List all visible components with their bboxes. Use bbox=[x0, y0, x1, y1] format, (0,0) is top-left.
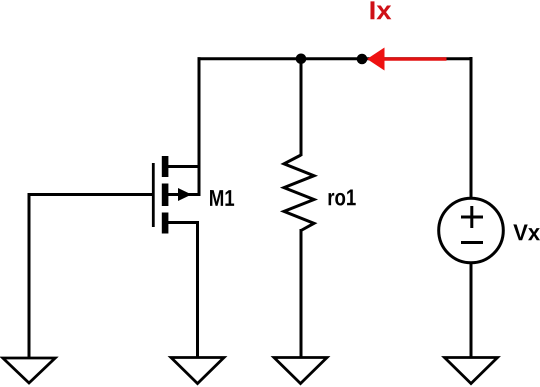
ground symbol 3 (ro1) bbox=[274, 358, 327, 384]
wire gate horizontal to left bbox=[29, 193, 152, 196]
wire drain vertical from top rail down to body junction bbox=[198, 57, 201, 195]
wire body stub of M1 with arrow bbox=[167, 193, 201, 196]
ground symbol 1 (left, gate) bbox=[3, 358, 55, 383]
wire source vertical down to ground bbox=[196, 221, 199, 358]
svg-text:Ix: Ix bbox=[369, 0, 393, 25]
svg-text:Vx: Vx bbox=[513, 219, 540, 245]
voltage source Vx circle bbox=[439, 198, 504, 263]
wire from top rail down to Vx source bbox=[470, 57, 473, 198]
node junction dot at Ix measurement point bbox=[357, 54, 368, 65]
wire from Vx source down to ground bbox=[470, 262, 473, 358]
ground symbol 4 (Vx) bbox=[445, 358, 498, 384]
minus sign of Vx bbox=[461, 241, 483, 244]
red current arrow Ix on top rail bbox=[384, 57, 447, 60]
transistor M1 gate line bbox=[152, 163, 155, 227]
wire from resistor ro1 down to ground bbox=[300, 229, 303, 358]
transistor M1 channel bar body bbox=[162, 184, 169, 207]
body arrow of M1 (points right) bbox=[178, 188, 192, 201]
wire from top rail down to resistor ro1 bbox=[300, 57, 303, 156]
wire left vertical down to ground bbox=[28, 193, 31, 358]
ground symbol 2 (M1 source) bbox=[171, 358, 224, 384]
transistor M1 channel bar drain bbox=[162, 156, 169, 177]
transistor M1 channel bar source bbox=[162, 213, 169, 234]
resistor ro1 zigzag bbox=[284, 155, 314, 231]
wire top rail from M1 drain to Vx bbox=[198, 57, 472, 60]
svg-text:ro1: ro1 bbox=[327, 184, 356, 210]
plus sign of Vx bbox=[461, 206, 483, 228]
node junction dot at ro1 / top rail bbox=[296, 54, 307, 65]
svg-text:M1: M1 bbox=[209, 185, 235, 211]
wire source horizontal stub of M1 bbox=[167, 221, 198, 224]
wire drain horizontal stub of M1 bbox=[167, 165, 201, 168]
